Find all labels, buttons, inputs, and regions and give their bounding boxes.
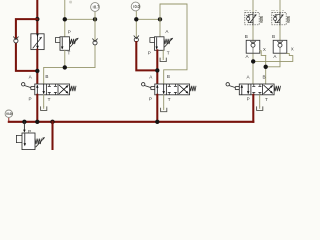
svg-text:B: B — [167, 74, 170, 79]
valve V3 port P label — [247, 97, 250, 102]
wire: SV2 T to tank — [162, 50, 164, 57]
node: manifold 1 right — [93, 17, 97, 21]
wire: sequence valve SV2 inlet from manifold — [159, 19, 161, 37]
svg-text:T: T — [168, 97, 171, 102]
valve V1 port P label — [28, 97, 31, 102]
wire: check branch olive upper — [135, 19, 137, 37]
node: manifold 2 right — [158, 17, 162, 21]
wire: drop to system relief valve — [23, 122, 26, 133]
node: bus at V2 P — [155, 120, 159, 124]
tank T3 — [257, 106, 263, 110]
wire: line A group 3 from top — [252, 0, 254, 84]
valve V3 port T label — [265, 97, 268, 102]
valve V1 port T label — [48, 97, 51, 102]
wire: PC1 pilot X stub down to B-side junction — [260, 51, 266, 56]
wire: pump supply from bottom edge — [51, 122, 53, 150]
pressure gauge G1 — [91, 3, 100, 20]
svg-text:B: B — [245, 34, 248, 39]
pilot check valve PC2 — [273, 40, 287, 53]
check valve CV1 on riser — [92, 39, 97, 45]
wire: V1 P to pressure bus — [36, 95, 38, 122]
tank under SV2 — [160, 58, 166, 62]
node: branch junction top-left — [35, 17, 39, 21]
node: bus to relief drop — [22, 120, 26, 124]
flow control valve FC1 — [245, 12, 263, 25]
relief valve RV1 — [55, 37, 78, 51]
wire: manifold 1 horizontal — [65, 18, 95, 20]
wire: check branch red lower to A junction — [136, 42, 157, 70]
throttle valve — [31, 34, 44, 50]
wire: throttle to valve V1 port A — [36, 50, 38, 84]
SV2 port T label — [167, 51, 170, 56]
PC1 port A label — [246, 54, 250, 59]
wire: V2 T to tank — [163, 95, 165, 108]
svg-text:P: P — [68, 29, 71, 34]
svg-text:T: T — [48, 97, 51, 102]
sequence valve SV2 port A label — [165, 29, 169, 34]
wire: bypass branch left leg — [16, 19, 37, 71]
pilot check valve PC1 — [246, 40, 260, 53]
wire: V2 P to pressure bus — [156, 95, 158, 122]
PC2 port A label — [273, 54, 277, 59]
node: A-side junction group 2 — [155, 68, 159, 72]
valve V3 port A label — [246, 74, 250, 79]
wire: pressure line into throttle branch from top — [36, 0, 38, 34]
wire: B-side web of valve V1 — [44, 67, 95, 84]
node: B-side junction group 3 — [264, 65, 268, 69]
wire: check valve riser group 1 — [94, 19, 96, 67]
check valve CV2 — [134, 36, 139, 42]
wire: RV1 T down to junction — [64, 50, 66, 67]
wire: B loop around group 2 — [160, 4, 187, 84]
node: A-side junction group 3 — [251, 59, 255, 63]
valve V2 port T label — [168, 97, 171, 102]
node: bypass rejoin junction — [35, 69, 39, 73]
node: bus at V1 P — [35, 120, 39, 124]
wire: V1 T to tank — [43, 95, 45, 107]
valve V2 port P label — [149, 97, 152, 102]
node: bus at pump supply — [50, 120, 54, 124]
PC2 pilot X label — [291, 47, 294, 52]
valve V1 port B label — [45, 74, 48, 79]
wire: valve V3 port B drop — [265, 55, 267, 84]
svg-text:P: P — [148, 51, 151, 56]
tank T1 — [41, 106, 47, 110]
relief valve RV1 port T label — [68, 50, 71, 55]
system relief valve PRV0 (cut off at bottom) — [16, 133, 45, 150]
svg-text:T: T — [265, 97, 268, 102]
svg-text:T: T — [167, 51, 170, 56]
relief valve RV1 port P label — [68, 29, 71, 34]
node: manifold 2 left — [134, 17, 138, 21]
4/3-way valve V2 — [142, 83, 197, 95]
svg-text:X: X — [291, 47, 294, 52]
system relief valve PRV0 P label — [28, 129, 31, 134]
sequence valve SV2 — [150, 37, 173, 51]
wire: V3 P to pressure bus riser — [252, 95, 254, 122]
valve V1 port A label — [29, 74, 33, 79]
svg-text:P: P — [247, 97, 250, 102]
svg-text:B: B — [272, 34, 275, 39]
pressure gauge G0 — [5, 110, 12, 122]
pressure gauge G2 — [131, 2, 140, 19]
tank T2 — [161, 108, 167, 112]
wire: line B group 3 from top — [266, 0, 280, 67]
FC1 port B label — [245, 34, 248, 39]
valve V2 port A label — [149, 74, 153, 79]
svg-text:T: T — [68, 50, 71, 55]
4/3-way valve V3 — [226, 83, 281, 95]
svg-text:P: P — [28, 97, 31, 102]
check valve on bypass branch — [13, 37, 18, 43]
flow control valve FC2 — [272, 12, 290, 25]
cropped fragment marks above FC valves — [244, 10, 257, 12]
wire: PC2 pilot X stub down to A-side junction — [253, 54, 293, 62]
PC1 pilot X label — [263, 47, 266, 52]
gauge manifold group 1: olive riser to top edge — [64, 0, 66, 37]
node: manifold 1 left — [63, 17, 67, 21]
4/3-way valve V1 — [22, 83, 77, 95]
wire: manifold 2 horizontal — [136, 18, 160, 20]
pressure bus — [9, 121, 254, 123]
cropped cylinder fragment left — [69, 1, 71, 3]
valve V3 port B label — [262, 74, 265, 79]
svg-text:B: B — [262, 74, 265, 79]
svg-text:B: B — [45, 74, 48, 79]
svg-text:X: X — [263, 47, 266, 52]
wire: V3 T to tank — [259, 95, 261, 107]
node: B-side junction — [63, 65, 67, 69]
FC2 port B label — [272, 34, 275, 39]
SV2 port P label — [148, 51, 151, 56]
svg-text:P: P — [149, 97, 152, 102]
valve V2 port B label — [167, 74, 170, 79]
wire: SV2 P red down to valve V2 port A — [156, 50, 158, 84]
